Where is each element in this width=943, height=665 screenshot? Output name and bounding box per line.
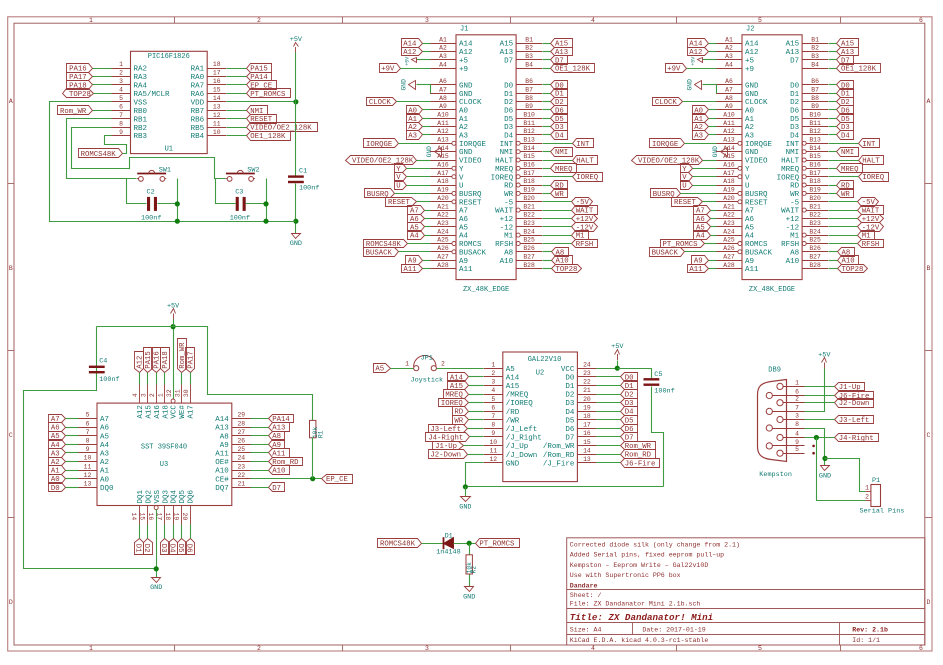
svg-text:RB5: RB5	[191, 125, 205, 133]
svg-text:7: 7	[491, 413, 495, 420]
ground	[465, 587, 474, 592]
svg-text:A14: A14	[437, 145, 449, 152]
wire	[251, 470, 269, 472]
svg-text:B15: B15	[523, 153, 535, 160]
svg-text:A11: A11	[403, 266, 417, 274]
svg-text:ZX_48K_EDGE: ZX_48K_EDGE	[463, 286, 509, 294]
svg-text:GND: GND	[290, 240, 302, 248]
svg-text:D7: D7	[272, 485, 281, 493]
svg-text:+9V: +9V	[381, 66, 395, 74]
svg-text:B15: B15	[809, 153, 821, 160]
DB9 pin 4	[777, 434, 783, 440]
global label A1	[49, 466, 66, 475]
svg-text:GND: GND	[459, 149, 473, 157]
svg-text:10: 10	[84, 455, 92, 462]
resistor R2 10k	[466, 555, 472, 574]
wire	[543, 268, 552, 270]
svg-text:A12: A12	[437, 128, 449, 135]
J2 pin A20 RESET	[738, 200, 742, 204]
U3 pin 23 A10	[232, 470, 251, 472]
svg-text:RFSH: RFSH	[862, 241, 880, 249]
svg-text:D0: D0	[625, 374, 634, 382]
svg-text:EP_CE: EP_CE	[250, 82, 272, 90]
J1 pin A6 GND	[430, 84, 456, 86]
svg-text:A10: A10	[500, 258, 514, 266]
J1 pin B20 -5	[516, 201, 542, 203]
svg-text:D6: D6	[185, 544, 193, 553]
svg-text:BUSACK: BUSACK	[459, 249, 487, 257]
svg-text:A5: A5	[459, 224, 469, 232]
global label J2-Down	[429, 450, 468, 459]
svg-text:D0: D0	[790, 82, 800, 90]
J2 pin B23 -12	[802, 226, 828, 228]
svg-text:18: 18	[164, 513, 171, 521]
global label A7	[694, 206, 711, 215]
global label PA16	[67, 64, 93, 73]
U2 pin 17 D6	[577, 428, 596, 430]
wire	[423, 134, 431, 136]
J1 pin B4	[516, 68, 542, 70]
wire +5V down to C1	[295, 53, 297, 176]
global label CLOCK	[653, 98, 683, 106]
J2 pin B27 A10	[802, 260, 828, 262]
svg-text:11: 11	[84, 463, 92, 470]
U3 pin 17 DQ3	[164, 506, 166, 525]
svg-text:-5: -5	[504, 199, 514, 207]
svg-text:A14: A14	[723, 145, 735, 152]
svg-text:A12: A12	[723, 128, 735, 135]
global label J3-Left	[429, 425, 468, 433]
wire	[66, 418, 79, 420]
svg-text:RB0: RB0	[134, 108, 148, 116]
wire	[543, 218, 572, 220]
wire	[805, 402, 835, 404]
svg-text:RA4: RA4	[134, 83, 148, 91]
J2 pin A13 IORQGE	[738, 141, 742, 145]
wire	[417, 160, 431, 162]
wire JP1 to U2 pin1	[437, 368, 484, 370]
global label A14	[402, 39, 423, 48]
svg-text:6: 6	[119, 104, 123, 111]
wire	[543, 168, 551, 170]
J2 pin B10 D5	[802, 118, 828, 120]
svg-text:A8: A8	[790, 249, 799, 257]
wire	[190, 373, 192, 385]
global label A2	[693, 123, 709, 131]
svg-text:+9: +9	[745, 66, 754, 74]
J2 pin B11 D3	[802, 126, 828, 128]
svg-text:ROMCS: ROMCS	[459, 241, 482, 249]
wire	[829, 260, 838, 262]
U2 pin 19 D4	[577, 411, 596, 413]
wire	[543, 251, 552, 253]
svg-text:D4: D4	[565, 409, 575, 417]
svg-text:RB2: RB2	[134, 125, 148, 133]
svg-text:4: 4	[119, 87, 123, 94]
svg-text:/WR: /WR	[506, 417, 520, 425]
J1 pin A10 A1	[430, 118, 456, 120]
svg-text:B6: B6	[811, 78, 819, 85]
wire	[709, 51, 717, 53]
svg-text:D1: D1	[445, 532, 453, 540]
svg-text:B2: B2	[525, 45, 533, 52]
svg-text:A5: A5	[410, 224, 419, 232]
svg-text:PT_ROMCS: PT_ROMCS	[479, 541, 515, 549]
wire	[681, 193, 717, 195]
svg-text:RFSH: RFSH	[576, 241, 594, 249]
svg-text:PA18: PA18	[162, 351, 170, 369]
svg-text:14: 14	[583, 447, 591, 454]
svg-text:B4: B4	[525, 61, 533, 68]
global label -5V	[572, 198, 593, 207]
svg-text:B14: B14	[523, 145, 535, 152]
global label PT_ROMCS	[661, 240, 705, 248]
wire VSS to ground	[156, 510, 158, 578]
global label A12	[402, 48, 423, 56]
U2 pin 24 VCC	[577, 368, 596, 370]
svg-text:15: 15	[213, 87, 221, 94]
wire	[687, 68, 717, 70]
U3 pin 3 A15	[147, 384, 149, 403]
svg-text:A8: A8	[504, 249, 513, 257]
global label A4	[408, 231, 425, 240]
svg-text:D4: D4	[168, 544, 176, 553]
svg-text:7: 7	[86, 429, 90, 436]
wire	[829, 218, 858, 220]
svg-text:RFSH: RFSH	[495, 241, 513, 249]
wire	[66, 452, 79, 454]
svg-text:D4: D4	[504, 133, 514, 141]
global label NMI	[551, 148, 573, 157]
svg-text:B21: B21	[809, 203, 821, 210]
wire	[164, 525, 166, 539]
global label A11	[402, 265, 423, 273]
wire	[181, 373, 183, 385]
svg-text:GND: GND	[459, 82, 473, 90]
svg-text:A22: A22	[437, 212, 449, 219]
svg-text:J2-Down: J2-Down	[430, 452, 461, 460]
J2 pin B24 M1	[802, 233, 806, 237]
svg-text:C: C	[927, 432, 931, 439]
U1 pin 8 RB2	[112, 127, 131, 129]
svg-text:A8: A8	[725, 95, 733, 102]
capacitor C5 100nf	[644, 378, 660, 380]
J2 pin A27 A9	[716, 260, 742, 262]
svg-text:WR: WR	[555, 191, 564, 199]
svg-text:B11: B11	[523, 120, 535, 127]
wire	[543, 193, 551, 195]
global label A13	[551, 48, 573, 56]
U1 pin 13 RB7	[207, 110, 226, 112]
global label A6	[408, 215, 425, 223]
wire	[683, 101, 717, 103]
J2 pin B8 D2	[802, 101, 828, 103]
global label A13	[837, 48, 859, 56]
global label OE1_128K	[247, 132, 291, 141]
svg-text:GND: GND	[506, 460, 520, 468]
svg-text:V: V	[745, 174, 750, 182]
junction	[822, 456, 827, 461]
wire	[399, 251, 431, 253]
global label Rom_WR	[58, 106, 93, 115]
wire to D1	[422, 543, 444, 545]
svg-text:/J_Down: /J_Down	[506, 452, 538, 460]
U1 pin 6 RB0	[112, 110, 131, 112]
svg-text:A14: A14	[459, 41, 473, 49]
global label A9	[269, 440, 285, 449]
svg-text:A2: A2	[459, 124, 468, 132]
wire	[543, 51, 551, 53]
svg-text:BUSACK: BUSACK	[366, 249, 393, 257]
J2 pin A25 ROMCS	[738, 242, 742, 246]
U2 pin 18 D5	[577, 419, 596, 421]
svg-text:DQ4: DQ4	[171, 489, 179, 503]
wire	[407, 185, 431, 187]
svg-text:B4: B4	[811, 61, 819, 68]
global label D7	[621, 433, 638, 442]
svg-text:B22: B22	[809, 212, 821, 219]
svg-text:3: 3	[141, 393, 148, 397]
svg-text:-5V: -5V	[862, 199, 876, 207]
svg-text:13: 13	[213, 104, 221, 111]
svg-text:VIDEO: VIDEO	[745, 158, 768, 166]
J2 pin B2 A13	[802, 51, 828, 53]
global label PA14	[269, 415, 294, 423]
U3 pin 8 A4	[78, 444, 97, 446]
global label A9	[692, 256, 709, 265]
resistor R1 10k	[310, 420, 316, 437]
svg-text:1n4148: 1n4148	[436, 549, 460, 557]
J2 pin A18 U	[716, 185, 742, 187]
U2 pin 20 D3	[577, 402, 596, 404]
svg-text:RA6: RA6	[191, 91, 205, 99]
J2 pin A6 GND	[716, 84, 742, 86]
svg-text:RA2: RA2	[134, 66, 148, 74]
J1 pin A14 GND	[430, 151, 456, 153]
svg-text:20: 20	[583, 396, 591, 403]
global label WR	[453, 416, 469, 425]
wire SW1 left to C2	[127, 179, 147, 204]
svg-text:31: 31	[175, 389, 182, 397]
svg-text:MREQ: MREQ	[495, 166, 514, 174]
U3 pin 5 A7	[78, 418, 97, 420]
svg-text:Serial Pins: Serial Pins	[860, 508, 905, 516]
U1 pin 3 RA4	[112, 84, 131, 86]
svg-text:A12: A12	[745, 49, 759, 57]
global label A3	[693, 131, 709, 140]
svg-text:J1: J1	[460, 26, 468, 34]
svg-text:DQ5: DQ5	[179, 489, 187, 503]
global label +9V	[666, 64, 687, 73]
svg-text:RD: RD	[790, 183, 800, 191]
svg-text:A21: A21	[723, 203, 735, 210]
wire	[543, 185, 551, 187]
global label A8	[838, 248, 855, 257]
svg-text:A24: A24	[437, 228, 449, 235]
svg-text:B23: B23	[523, 220, 535, 227]
svg-text:Corrected diode silk (only cha: Corrected diode silk (only change from 2…	[570, 542, 740, 549]
wire	[829, 168, 837, 170]
svg-text:INT: INT	[786, 141, 800, 149]
svg-text:5: 5	[491, 396, 495, 403]
U3 pin 2 A16	[156, 384, 158, 403]
wire	[93, 76, 112, 78]
wire	[543, 134, 551, 136]
global label A15	[837, 39, 859, 48]
svg-text:5: 5	[795, 446, 799, 453]
global label RESET	[672, 198, 703, 207]
svg-text:A6: A6	[439, 78, 447, 85]
svg-text:B: B	[9, 265, 13, 272]
global label M1	[858, 231, 875, 240]
svg-text:A3: A3	[439, 53, 447, 60]
svg-text:5: 5	[86, 412, 90, 419]
wire	[693, 185, 717, 187]
global label D5	[178, 539, 187, 555]
wire	[66, 444, 79, 446]
svg-text:A27: A27	[723, 253, 735, 260]
global label RD	[453, 407, 469, 416]
svg-text:A1: A1	[100, 468, 110, 476]
svg-text:A15: A15	[145, 405, 153, 419]
wire	[181, 525, 183, 539]
svg-text:B10: B10	[809, 112, 821, 119]
svg-text:D5: D5	[176, 544, 184, 553]
svg-text:B19: B19	[809, 187, 821, 194]
wire C1 to ground bus	[295, 184, 297, 234]
global label RFSH	[572, 240, 598, 248]
svg-text:A0: A0	[745, 108, 755, 116]
svg-text:A7: A7	[439, 86, 447, 93]
svg-text:D7: D7	[565, 435, 574, 443]
svg-text:B16: B16	[523, 162, 535, 169]
svg-text:A6: A6	[725, 78, 733, 85]
svg-text:D1: D1	[565, 383, 575, 391]
ground	[465, 487, 467, 497]
svg-text:B12: B12	[809, 128, 821, 135]
J2 pin B1 A15	[802, 43, 828, 45]
ground GND A6/A7	[716, 85, 718, 94]
svg-text:+9: +9	[459, 66, 468, 74]
svg-text:A10: A10	[272, 468, 285, 476]
J1 pin A9 A0	[430, 109, 456, 111]
wire	[251, 444, 269, 446]
svg-text:B9: B9	[811, 103, 819, 110]
svg-text:12: 12	[213, 112, 221, 119]
svg-text:2: 2	[441, 361, 445, 368]
svg-text:OE1_128K: OE1_128K	[250, 133, 286, 141]
svg-text:WAIT: WAIT	[781, 208, 800, 216]
svg-text:HALT: HALT	[781, 158, 800, 166]
svg-text:RESET: RESET	[250, 116, 273, 124]
J2 pin A11 A2	[716, 126, 742, 128]
U1 pin 14 VDD	[207, 101, 226, 103]
svg-text:25: 25	[237, 446, 245, 453]
svg-text:A8: A8	[556, 249, 565, 257]
global label A6	[49, 423, 66, 432]
svg-text:9: 9	[795, 439, 799, 446]
svg-text:23: 23	[583, 370, 591, 377]
svg-text:A6: A6	[459, 216, 469, 224]
svg-text:CLOCK: CLOCK	[369, 99, 392, 107]
global label BUSRQ	[365, 189, 395, 198]
U3 pin 6 A6	[78, 427, 97, 429]
J1 pin B28	[516, 268, 542, 270]
svg-text:A9: A9	[439, 103, 447, 110]
svg-text:Date: 2017-01-19: Date: 2017-01-19	[642, 626, 705, 633]
U3 pin 22 CE#	[232, 478, 251, 480]
wire	[705, 243, 717, 245]
wire	[147, 373, 149, 385]
J2 pin B20 -5	[802, 201, 828, 203]
svg-text:6: 6	[491, 404, 495, 411]
wire	[423, 260, 431, 262]
svg-text:PA17: PA17	[188, 351, 196, 369]
svg-text:B21: B21	[523, 203, 535, 210]
svg-text:/Rom_RD: /Rom_RD	[543, 452, 575, 460]
svg-text:4: 4	[591, 17, 595, 24]
wire +5V to C5	[618, 369, 652, 379]
svg-text:2: 2	[865, 494, 869, 501]
U2 pin 13 /J_Fire	[577, 462, 596, 464]
wire	[423, 118, 431, 120]
svg-text:A13: A13	[500, 49, 514, 57]
svg-text:A: A	[927, 98, 931, 105]
svg-text:B: B	[927, 265, 931, 272]
global label TOP28	[63, 89, 94, 98]
global label NMI	[837, 148, 859, 157]
wire	[829, 68, 837, 70]
wire	[227, 84, 247, 86]
wire	[423, 43, 431, 45]
connector DB9 Kempston shell	[758, 380, 787, 462]
svg-text:B17: B17	[523, 170, 535, 177]
svg-text:A27: A27	[437, 253, 449, 260]
svg-text:A26: A26	[723, 245, 735, 252]
svg-text:A7: A7	[725, 86, 733, 93]
global label WAIT	[572, 206, 598, 215]
svg-text:Joystick: Joystick	[411, 376, 444, 384]
svg-text:4: 4	[132, 393, 139, 397]
global label ROMCS48K	[79, 149, 123, 158]
U2 pin 2 A14	[484, 376, 503, 378]
wire CE# to EP_CE	[251, 478, 322, 480]
global label A13	[269, 423, 290, 432]
svg-text:A25: A25	[437, 237, 449, 244]
global label A5	[49, 432, 66, 441]
U3 pin 13 DQ0	[78, 487, 97, 489]
svg-text:WAIT: WAIT	[495, 208, 514, 216]
svg-text:A6: A6	[745, 216, 755, 224]
svg-text:B8: B8	[811, 95, 819, 102]
J2 pin A15 VIDEO	[716, 160, 742, 162]
global label IORQGE	[650, 139, 685, 148]
svg-text:A3: A3	[408, 132, 417, 140]
svg-text:A3: A3	[725, 53, 733, 60]
global label D1	[551, 89, 568, 98]
global label D4	[551, 131, 568, 140]
svg-text:/Rom_WR: /Rom_WR	[543, 443, 575, 451]
svg-text:9: 9	[491, 430, 495, 437]
svg-text:B19: B19	[523, 187, 535, 194]
svg-text:6: 6	[795, 389, 799, 396]
svg-text:6: 6	[919, 645, 923, 652]
wire	[251, 435, 269, 437]
svg-text:IOREQ: IOREQ	[862, 174, 885, 182]
wire C5 to ground	[652, 387, 664, 487]
global label MREQ	[551, 164, 577, 173]
global label PA15	[144, 348, 153, 373]
